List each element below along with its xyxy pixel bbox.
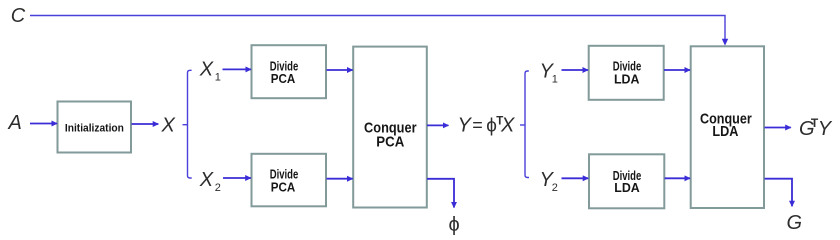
svg-text:X: X [500, 114, 515, 136]
svg-text:PCA: PCA [376, 134, 404, 151]
svg-text:LDA: LDA [712, 123, 738, 140]
svg-text:ϕ: ϕ [449, 214, 460, 236]
svg-text:PCA: PCA [271, 72, 296, 86]
svg-text:1: 1 [215, 72, 221, 84]
svg-text:Y: Y [818, 118, 833, 140]
svg-text:2: 2 [215, 182, 221, 194]
svg-text:Divide: Divide [613, 60, 642, 74]
svg-text:X: X [199, 59, 214, 81]
svg-text:PCA: PCA [271, 181, 296, 195]
svg-text:LDA: LDA [614, 181, 640, 195]
svg-text:X: X [161, 115, 176, 137]
svg-text:=: = [472, 115, 483, 135]
svg-text:Initialization: Initialization [65, 122, 124, 134]
svg-text:C: C [11, 5, 26, 27]
svg-text:LDA: LDA [614, 73, 640, 87]
svg-text:2: 2 [552, 182, 558, 194]
svg-text:Y: Y [458, 114, 473, 136]
svg-text:X: X [199, 169, 214, 191]
svg-text:G: G [787, 212, 803, 234]
svg-text:1: 1 [552, 73, 558, 85]
svg-text:A: A [8, 112, 22, 134]
